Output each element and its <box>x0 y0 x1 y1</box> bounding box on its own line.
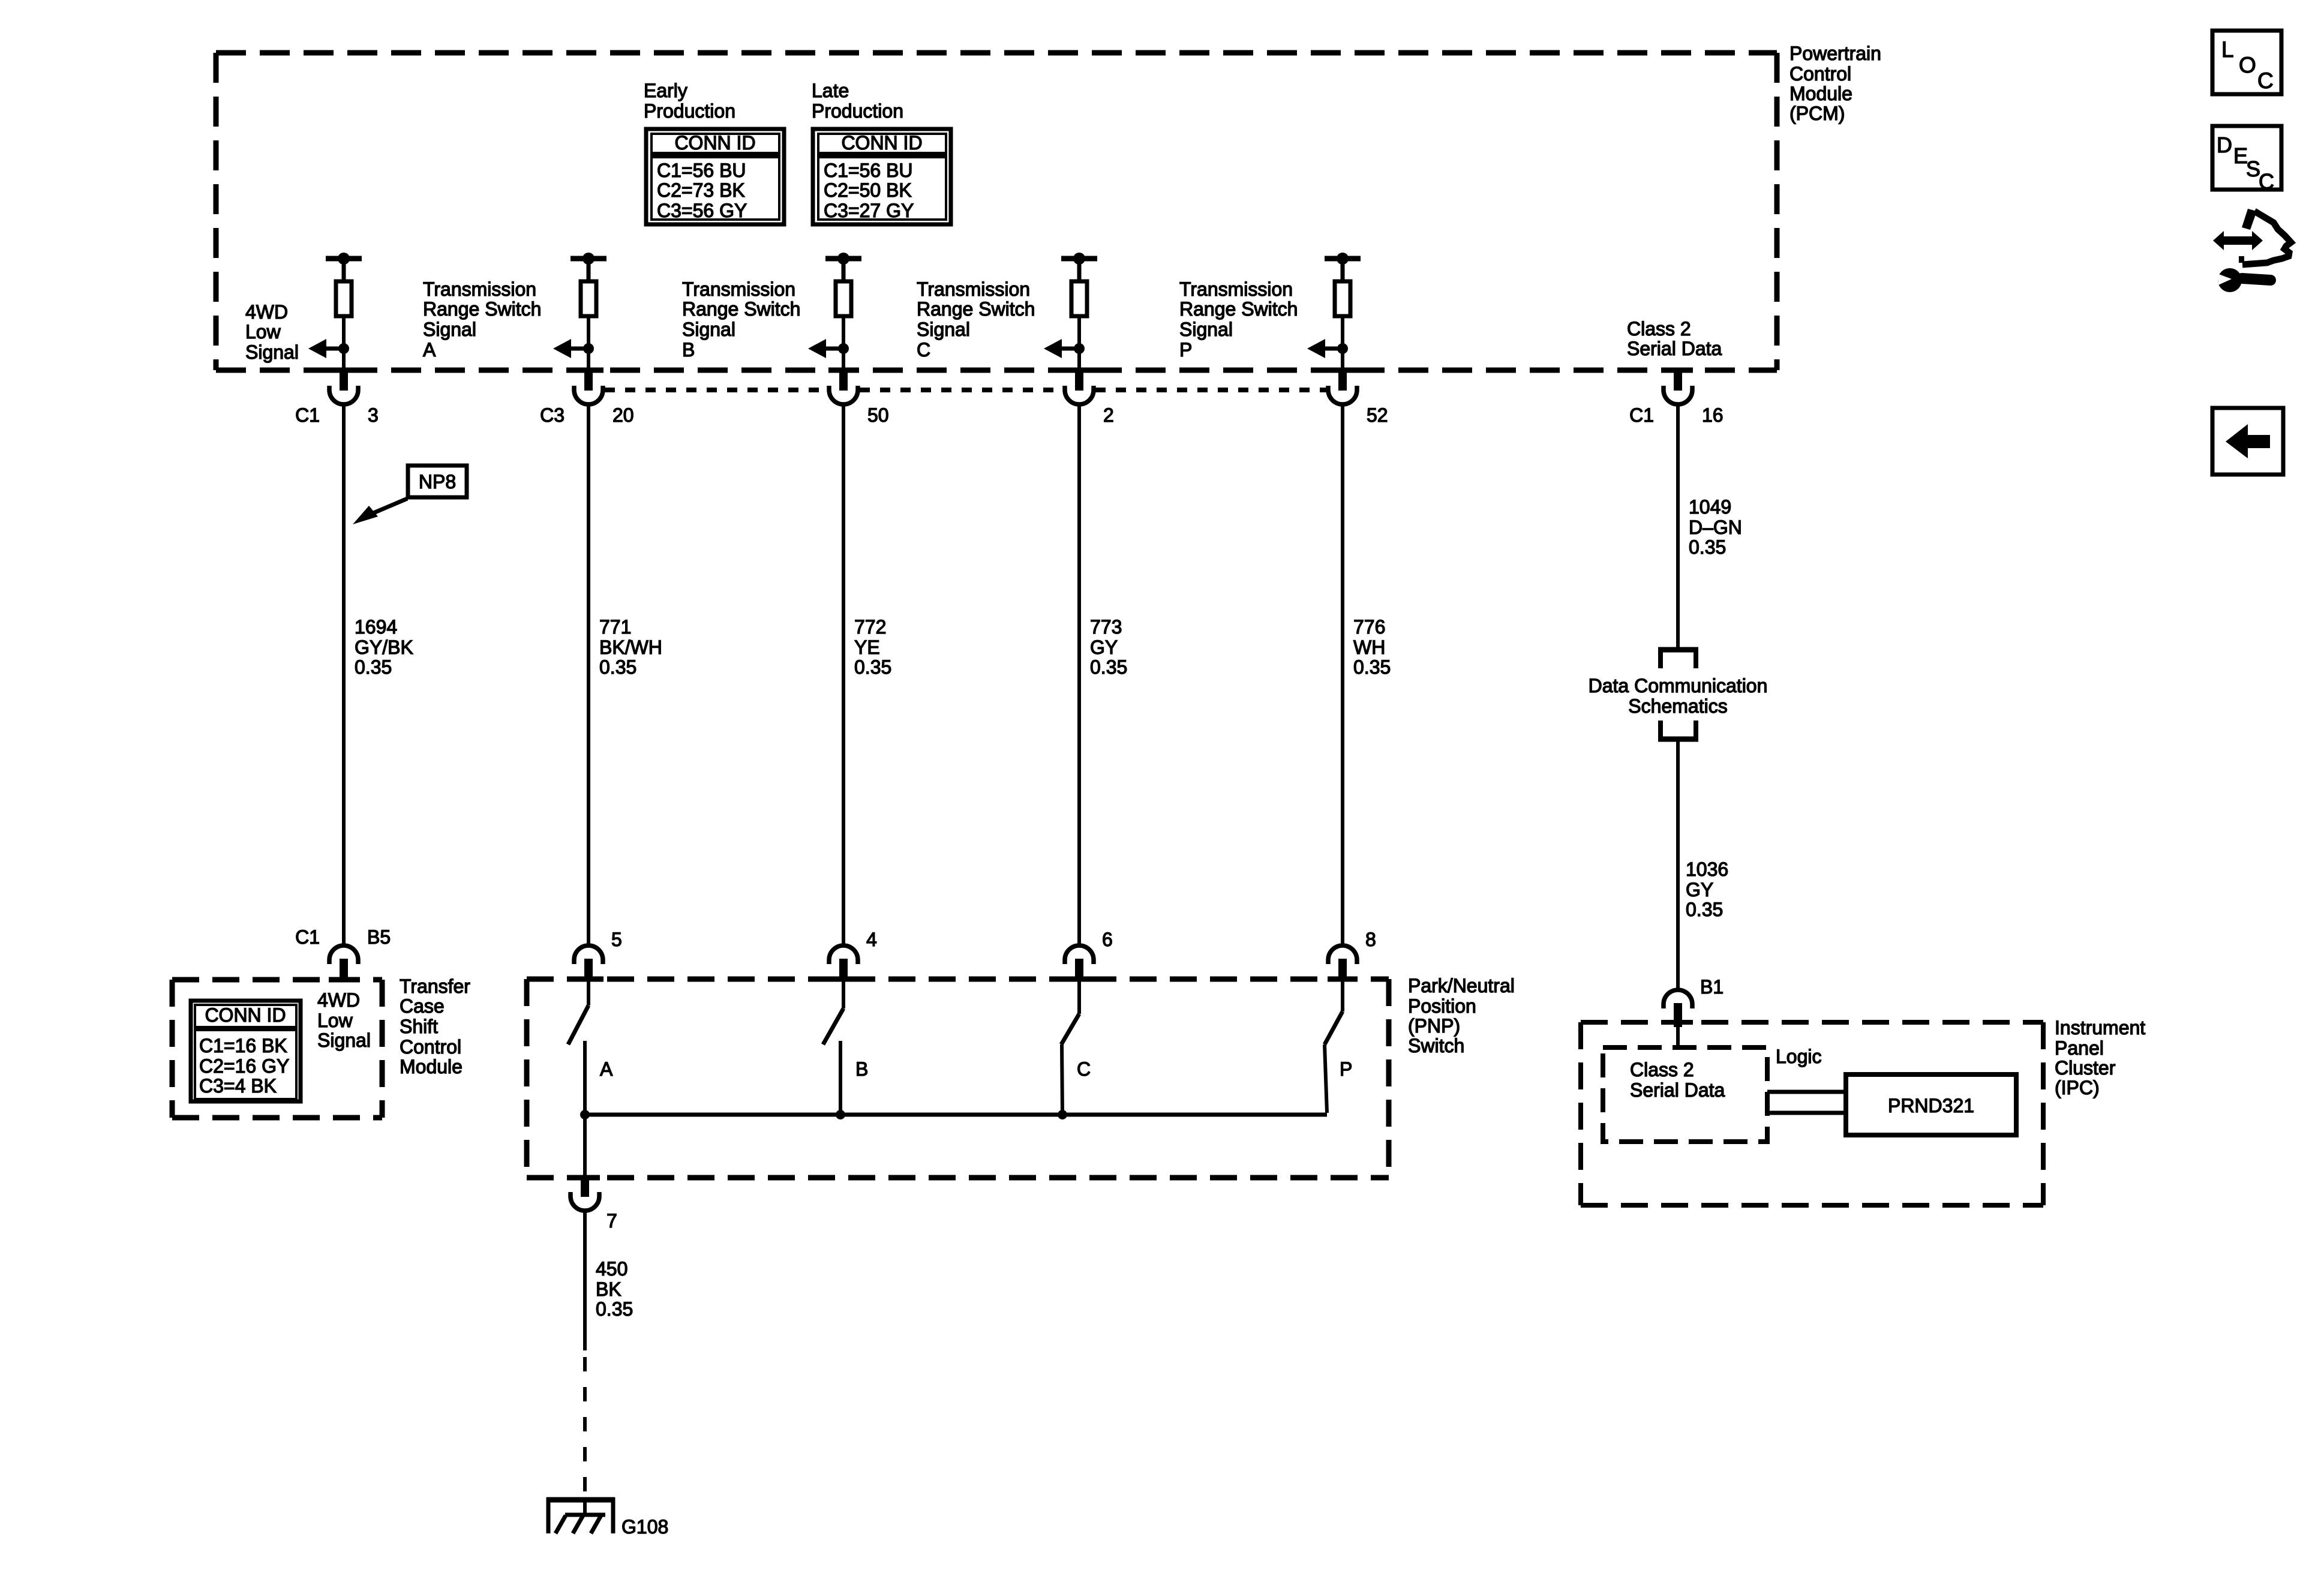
junction node C-bus <box>1058 1110 1067 1119</box>
svg-text:1049: 1049 <box>1689 496 1731 518</box>
svg-text:1036: 1036 <box>1686 858 1728 880</box>
svg-text:771: 771 <box>599 616 631 638</box>
wire: circuit 1036 GY run <box>1676 742 1680 990</box>
Late Production CONN ID table <box>813 129 951 224</box>
svg-text:GY: GY <box>1090 637 1118 658</box>
connector stub at PNP, pin 6 <box>1075 959 1083 978</box>
svg-text:Transmission: Transmission <box>1179 278 1293 300</box>
wire: junction to PCM edge, circuit 3 <box>842 349 845 369</box>
svg-text:Production: Production <box>644 100 735 122</box>
PCM edge crossing dash, circuit 2 <box>574 368 603 373</box>
svg-text:0.35: 0.35 <box>596 1298 633 1320</box>
svg-text:C: C <box>917 339 930 361</box>
svg-text:Signal: Signal <box>245 341 299 363</box>
TCSCM edge crossing dash, pin B5 <box>329 977 359 983</box>
svg-text:Module: Module <box>1789 83 1852 104</box>
svg-text:4: 4 <box>866 929 877 950</box>
svg-text:(PNP): (PNP) <box>1408 1015 1460 1037</box>
Early Production CONN ID table <box>646 129 784 224</box>
connector arc at PNP, pin 4 <box>829 945 858 964</box>
svg-text:Transmission: Transmission <box>682 278 795 300</box>
wire: junction to PCM edge, circuit 1 <box>342 349 346 369</box>
PCM edge crossing dash, circuit 1 <box>329 368 359 373</box>
svg-text:Transmission: Transmission <box>917 278 1030 300</box>
off-page reference break (bottom bracket) <box>1658 721 1698 739</box>
connector arc at TCSCM, pin B5 <box>329 945 358 964</box>
PNP edge crossing dash, pin 6 <box>1064 977 1094 982</box>
svg-text:D: D <box>2217 133 2232 157</box>
PNP edge crossing dash, pin 7 <box>570 1175 600 1181</box>
svg-text:4WD: 4WD <box>317 989 360 1011</box>
wire: circuit 776 WH vertical run <box>1341 403 1344 947</box>
pin labels 2 at PCM <box>1103 404 1114 426</box>
connector arc at PCM, pin 3 <box>329 386 358 404</box>
connector stub at PCM, pin 3 <box>340 371 348 391</box>
svg-text:Class 2: Class 2 <box>1627 318 1691 340</box>
signal arrow, circuit 3 <box>808 339 843 358</box>
node: internal supply T-bar, circuit 3 <box>825 253 861 281</box>
switch A top contact wire <box>587 979 590 1005</box>
svg-text:C2=50 BK: C2=50 BK <box>824 179 912 201</box>
PNP edge crossing dash, pin 4 <box>828 977 858 982</box>
svg-text:D–GN: D–GN <box>1689 517 1742 538</box>
TCSCM dashed box (Transfer Case Shift Control Module) <box>172 980 382 1118</box>
svg-text:0.35: 0.35 <box>1353 656 1391 678</box>
svg-text:5: 5 <box>611 929 622 950</box>
svg-text:Signal: Signal <box>1179 319 1233 340</box>
svg-text:YE: YE <box>854 637 880 658</box>
svg-text:Logic: Logic <box>1776 1046 1822 1067</box>
resistor: PCM pull-up, circuit 2 <box>581 281 596 316</box>
back arrow icon <box>2212 408 2283 475</box>
svg-text:Production: Production <box>812 100 903 122</box>
node: signal pick-off junction, circuit 5 <box>1337 343 1348 354</box>
connector stub at PNP, pin 7 <box>581 1176 589 1197</box>
label: 4WD Low Signal (at TCSCM) <box>317 989 371 1051</box>
connector arc at PCM, pin 50 <box>829 386 858 404</box>
svg-text:Range Switch: Range Switch <box>682 298 800 320</box>
svg-text:C2=16 GY: C2=16 GY <box>199 1055 289 1077</box>
svg-text:Control: Control <box>400 1036 461 1058</box>
connector stub at PCM, pin 50 <box>839 371 848 391</box>
svg-text:C1: C1 <box>295 404 320 426</box>
svg-text:P: P <box>1340 1058 1352 1080</box>
switch A bottom contact wire <box>583 1041 587 1115</box>
svg-text:4WD: 4WD <box>245 301 288 323</box>
connector arc at PNP, pin 7 <box>571 1192 599 1211</box>
connector arc at IPC, pin B1 <box>1664 990 1692 1008</box>
svg-text:0.35: 0.35 <box>854 656 891 678</box>
svg-text:Case: Case <box>400 995 445 1017</box>
PCM edge crossing dash, circuit 3 <box>828 368 858 373</box>
Early Production label <box>644 80 735 122</box>
label: circuit 772 YE 0.35 <box>854 616 891 678</box>
resistor: PCM pull-up, circuit 5 <box>1335 281 1350 316</box>
PCM dashed box (Powertrain Control Module) <box>216 53 1777 370</box>
PNP edge crossing dash, pin 5 <box>574 977 603 982</box>
wire: class 2 serial data to PCM edge crossing dash <box>1663 368 1693 373</box>
svg-text:NP8: NP8 <box>419 471 456 493</box>
node: signal pick-off junction, circuit 4 <box>1074 343 1085 354</box>
switch P blade <box>1325 1011 1343 1044</box>
label: 4WD Low Signal <box>245 301 299 363</box>
connector arc at PCM, pin 52 <box>1328 386 1357 404</box>
ground G108 symbol <box>547 1497 615 1533</box>
connector stub at PNP, pin 5 <box>584 959 593 978</box>
label: Class 2 Serial Data (IPC) <box>1630 1059 1725 1101</box>
svg-text:Late: Late <box>812 80 849 101</box>
switch A blade <box>568 1005 588 1044</box>
svg-text:CONN ID: CONN ID <box>841 132 922 154</box>
svg-text:O: O <box>2239 53 2256 77</box>
svg-text:776: 776 <box>1353 616 1385 638</box>
pin labels 50 at PCM <box>867 404 889 426</box>
svg-text:A: A <box>423 339 436 361</box>
PNP common bus wire <box>585 1113 1327 1117</box>
IPC dashed box (Instrument Panel Cluster) <box>1581 1022 2043 1205</box>
node: internal supply T-bar, circuit 2 <box>571 253 606 281</box>
svg-text:C3=27 GY: C3=27 GY <box>824 200 914 221</box>
switch C blade <box>1061 1014 1079 1044</box>
svg-text:P: P <box>1179 339 1192 361</box>
switch B blade <box>823 1008 843 1044</box>
resistor: PCM pull-up, circuit 3 <box>836 281 851 316</box>
svg-text:BK: BK <box>596 1278 621 1300</box>
connector stub at PNP, pin 8 <box>1338 959 1347 978</box>
wire: resistor to junction, circuit 3 <box>842 318 845 349</box>
pin labels C1 3 at PCM <box>295 404 379 426</box>
PCM label text <box>1789 43 1881 124</box>
label: Park/Neutral Position (PNP) Switch <box>1408 975 1515 1056</box>
svg-text:2: 2 <box>1103 404 1114 426</box>
svg-text:50: 50 <box>867 404 889 426</box>
connector arc at PCM, pin 2 <box>1065 386 1094 404</box>
switch B bottom contact wire <box>839 1041 842 1115</box>
wire: circuit 773 GY vertical run <box>1077 403 1081 947</box>
svg-text:L: L <box>2221 37 2234 62</box>
TCSCM CONN ID table <box>191 1001 301 1101</box>
svg-text:C1=16 BK: C1=16 BK <box>199 1035 287 1056</box>
svg-text:Range Switch: Range Switch <box>423 298 541 320</box>
switch B top contact wire <box>842 979 845 1008</box>
NP8 callout arrow <box>353 499 407 524</box>
svg-text:Class 2: Class 2 <box>1630 1059 1694 1080</box>
svg-text:B: B <box>855 1058 868 1080</box>
IPC edge crossing dash, pin B1 <box>1663 1020 1693 1025</box>
svg-text:B1: B1 <box>1700 976 1724 998</box>
switch C top contact wire <box>1077 979 1081 1014</box>
svg-text:GY/BK: GY/BK <box>355 637 413 658</box>
wire: junction to PCM edge, circuit 4 <box>1077 349 1081 369</box>
svg-text:773: 773 <box>1090 616 1122 638</box>
connector arc at PNP, pin 5 <box>574 945 603 964</box>
svg-text:(IPC): (IPC) <box>2055 1077 2100 1098</box>
connector stub at PCM, pin 20 <box>584 371 593 391</box>
svg-text:Park/Neutral: Park/Neutral <box>1408 975 1515 996</box>
connector stub at PCM, pin 52 <box>1338 371 1347 391</box>
LOC hyperlink icon <box>2212 31 2281 94</box>
svg-text:Instrument: Instrument <box>2055 1017 2145 1038</box>
svg-text:Cluster: Cluster <box>2055 1057 2116 1079</box>
resistor: PCM pull-up, circuit 1 <box>336 281 352 316</box>
svg-text:8: 8 <box>1365 929 1376 950</box>
pin labels C1 B5 at TCSCM <box>295 926 391 948</box>
svg-text:0.35: 0.35 <box>1090 656 1127 678</box>
signal arrow, circuit 1 <box>308 339 344 358</box>
label: Instrument Panel Cluster (IPC) <box>2055 1017 2145 1098</box>
svg-text:16: 16 <box>1702 404 1724 426</box>
wire: junction to PCM edge, circuit 5 <box>1341 349 1344 369</box>
resistor: PCM pull-up, circuit 4 <box>1071 281 1087 316</box>
svg-text:C1: C1 <box>295 926 320 948</box>
svg-text:WH: WH <box>1353 637 1385 658</box>
node: signal pick-off junction, circuit 1 <box>338 343 349 354</box>
svg-text:Powertrain: Powertrain <box>1789 43 1881 64</box>
label: circuit 773 GY 0.35 <box>1090 616 1127 678</box>
svg-text:0.35: 0.35 <box>599 656 636 678</box>
junction node A-bus <box>580 1110 590 1119</box>
connector arc at PCM, pin 20 <box>574 386 603 404</box>
label: circuit 1036 GY 0.35 <box>1686 858 1728 920</box>
connector arc at PNP, pin 6 <box>1065 945 1094 964</box>
svg-text:Schematics: Schematics <box>1628 695 1727 717</box>
svg-text:Range Switch: Range Switch <box>1179 298 1298 320</box>
svg-text:Signal: Signal <box>317 1029 371 1051</box>
logic link wires to PRND321 <box>1767 1092 1846 1113</box>
node: internal supply T-bar, circuit 1 <box>326 253 362 281</box>
vehicle diagnostic icon <box>2213 209 2291 292</box>
svg-text:B5: B5 <box>367 926 391 948</box>
junction node B-bus <box>836 1110 845 1119</box>
node: signal pick-off junction, circuit 2 <box>583 343 594 354</box>
svg-text:Signal: Signal <box>917 319 970 340</box>
svg-text:Range Switch: Range Switch <box>917 298 1035 320</box>
svg-text:C3: C3 <box>540 404 565 426</box>
Late Production label <box>812 80 903 122</box>
svg-text:Signal: Signal <box>423 319 476 340</box>
wire: B1 stub to class 2 box <box>1676 1027 1680 1049</box>
svg-text:CONN ID: CONN ID <box>205 1004 286 1026</box>
label: circuit 450 BK 0.35 <box>596 1258 633 1320</box>
pin labels C1 16 <box>1629 404 1724 426</box>
svg-text:Data Communication: Data Communication <box>1589 675 1768 697</box>
svg-text:Switch: Switch <box>1408 1035 1464 1056</box>
label: Transfer Case Shift Control Module <box>400 975 470 1077</box>
svg-text:Serial Data: Serial Data <box>1627 338 1722 359</box>
svg-text:B: B <box>682 339 695 361</box>
svg-text:PRND321: PRND321 <box>1888 1095 1974 1116</box>
svg-text:Early: Early <box>644 80 687 101</box>
svg-text:Shift: Shift <box>400 1016 438 1037</box>
wire: circuit 450 BK dashed run to ground <box>583 1357 587 1500</box>
label: Transmission Range Switch Signal P <box>1179 278 1298 361</box>
svg-text:CONN ID: CONN ID <box>674 132 755 154</box>
label: circuit 776 WH 0.35 <box>1353 616 1391 678</box>
IPC class 2 serial data inner dashed box <box>1603 1047 1767 1142</box>
svg-text:Signal: Signal <box>682 319 735 340</box>
svg-text:Low: Low <box>317 1010 353 1031</box>
wire: resistor to junction, circuit 4 <box>1077 318 1081 349</box>
label: circuit 1694 GY/BK 0.35 <box>355 616 413 678</box>
NP8 option callout box <box>408 466 467 497</box>
signal arrow, circuit 2 <box>553 339 588 358</box>
svg-text:A: A <box>600 1058 613 1080</box>
DESC hyperlink icon <box>2212 126 2281 194</box>
svg-text:Serial Data: Serial Data <box>1630 1079 1725 1101</box>
svg-text:450: 450 <box>596 1258 627 1280</box>
svg-text:0.35: 0.35 <box>355 656 392 678</box>
PRND321 display box <box>1846 1074 2016 1135</box>
svg-text:Low: Low <box>245 321 281 343</box>
switch P bottom contact wire <box>1325 1044 1327 1113</box>
svg-text:C2=73 BK: C2=73 BK <box>657 179 745 201</box>
node: signal pick-off junction, circuit 3 <box>838 343 849 354</box>
svg-text:GY: GY <box>1686 879 1713 900</box>
PCM edge crossing dash, circuit 5 <box>1328 368 1358 373</box>
signal arrow, circuit 5 <box>1307 339 1343 358</box>
svg-text:C1=56 BU: C1=56 BU <box>824 160 913 181</box>
svg-text:7: 7 <box>606 1210 617 1232</box>
label: Transmission Range Switch Signal A <box>423 278 541 361</box>
wire: resistor to junction, circuit 1 <box>342 318 346 349</box>
connector stub at IPC, pin B1 <box>1674 1003 1682 1027</box>
connector stub at PCM, pin 2 <box>1075 371 1083 391</box>
label: Transmission Range Switch Signal B <box>682 278 800 361</box>
svg-text:0.35: 0.35 <box>1686 899 1723 920</box>
node: internal supply T-bar, circuit 5 <box>1325 253 1361 281</box>
label: Class 2 Serial Data (PCM) <box>1627 318 1722 359</box>
wire: bus to pin 7 <box>583 1115 587 1176</box>
switch C bottom contact wire <box>1062 1044 1062 1115</box>
svg-text:C3=56 GY: C3=56 GY <box>657 200 747 221</box>
svg-text:C: C <box>2259 169 2274 194</box>
svg-text:Transfer: Transfer <box>400 975 470 997</box>
wire: circuit 1049 D-GN run <box>1676 403 1680 647</box>
svg-text:20: 20 <box>612 404 634 426</box>
wire: junction to PCM edge, circuit 2 <box>587 349 590 369</box>
wire: resistor to junction, circuit 5 <box>1341 318 1344 349</box>
wire: circuit 450 BK solid run <box>583 1209 587 1350</box>
label: Data Communication Schematics <box>1589 675 1768 717</box>
wire: circuit 1694 GY/BK vertical run <box>342 403 346 947</box>
svg-text:3: 3 <box>368 404 379 426</box>
svg-text:BK/WH: BK/WH <box>599 637 662 658</box>
svg-text:C1=56 BU: C1=56 BU <box>657 160 746 181</box>
label: circuit 771 BK/WH 0.35 <box>599 616 662 678</box>
connector stub at PNP, pin 4 <box>839 959 848 978</box>
svg-text:1694: 1694 <box>355 616 397 638</box>
wire: circuit 772 YE vertical run <box>842 403 845 947</box>
svg-text:52: 52 <box>1367 404 1388 426</box>
svg-text:C: C <box>1077 1058 1091 1080</box>
node: internal supply T-bar, circuit 4 <box>1061 253 1097 281</box>
off-page reference break (top bracket) <box>1658 650 1698 668</box>
svg-text:G108: G108 <box>621 1516 668 1538</box>
wire: resistor to junction, circuit 2 <box>587 318 590 349</box>
PNP edge crossing dash, pin 8 <box>1328 977 1358 982</box>
svg-text:Control: Control <box>1789 63 1851 85</box>
label: circuit 1049 D-GN 0.35 <box>1689 496 1742 558</box>
pin labels C3 20 at PCM <box>540 404 634 426</box>
svg-text:C3=4 BK: C3=4 BK <box>199 1075 277 1097</box>
svg-text:Transmission: Transmission <box>423 278 536 300</box>
connector arc at PCM, pin 16 <box>1664 386 1692 404</box>
svg-text:6: 6 <box>1102 929 1113 950</box>
svg-text:Module: Module <box>400 1056 463 1077</box>
label: Transmission Range Switch Signal C <box>917 278 1035 361</box>
svg-text:C1: C1 <box>1629 404 1654 426</box>
signal arrow, circuit 4 <box>1044 339 1079 358</box>
PCM edge crossing dash, circuit 4 <box>1064 368 1094 373</box>
svg-text:(PCM): (PCM) <box>1789 103 1845 124</box>
svg-text:Position: Position <box>1408 995 1476 1017</box>
wire: circuit 771 BK/WH vertical run <box>587 403 590 947</box>
connector stub at TCSCM, pin B5 <box>340 959 348 978</box>
svg-text:0.35: 0.35 <box>1689 536 1726 558</box>
svg-text:C: C <box>2257 68 2274 93</box>
pin labels 52 at PCM <box>1367 404 1388 426</box>
connector arc at PNP, pin 8 <box>1328 945 1357 964</box>
switch P top contact wire <box>1341 979 1344 1011</box>
svg-text:Panel: Panel <box>2055 1037 2104 1059</box>
connector stub at PCM, pin 16 <box>1674 371 1682 391</box>
C3 in-line connector dotted line <box>605 388 1326 392</box>
PNP dashed box (Park/Neutral Position Switch) <box>527 979 1389 1178</box>
svg-text:772: 772 <box>854 616 886 638</box>
